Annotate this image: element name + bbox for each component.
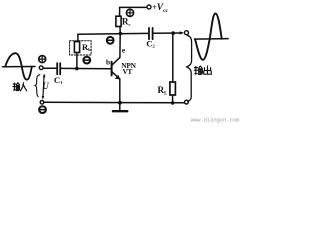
label 输入 (input) : hand-drawn glyph 入 [20, 83, 26, 91]
output brace } [187, 35, 192, 101]
collector line wire (RB corner to C2) [78, 32, 148, 35]
input waveform axis [3, 66, 35, 68]
wire: RL bottom to rail [172, 95, 174, 103]
output waveform sine (inverted, amplified) [195, 14, 222, 60]
polarity symbol ⊕ on top rail [126, 9, 133, 16]
input waveform sine [5, 53, 32, 80]
ground [119, 103, 121, 111]
capacitor C1 [57, 63, 60, 74]
resistor R1 body [116, 16, 121, 26]
junction: RL at rail [171, 101, 175, 105]
transistor VT base bar [111, 62, 113, 76]
wire: R1 bottom to collector node [119, 27, 121, 34]
output terminal (bottom) [185, 100, 189, 104]
svg-text:b: b [106, 57, 110, 66]
wire: output node down to RL [172, 33, 174, 82]
bottom rail wire [44, 101, 185, 104]
polarity symbol ⊕ at input top [39, 56, 46, 63]
Vcc terminal [147, 5, 151, 9]
junction: output node [171, 31, 175, 35]
junction: RB bottom to base line [75, 67, 79, 71]
label 输入 (input) : hand-drawn glyph 输 [13, 83, 20, 91]
polarity symbol ⊖ at base [83, 57, 90, 64]
svg-text:www.diangon.com: www.diangon.com [191, 117, 240, 123]
polarity symbol ⊖ at collector [107, 37, 114, 44]
svg-text:VT: VT [123, 67, 133, 76]
wire: collector up to node [119, 34, 121, 58]
output terminal (top) [185, 31, 189, 35]
svg-text:U: U [42, 81, 49, 91]
wire: input terminal to C1 [43, 67, 56, 69]
polarity symbol ⊖ below input [39, 106, 46, 113]
top rail wire [120, 6, 147, 8]
transistor emitter stroke with arrow [112, 72, 120, 79]
wire: C2 to output node [154, 32, 181, 34]
label 输出 (output) : hand-drawn glyph 输 [194, 66, 202, 74]
dashed box around RB [70, 41, 92, 55]
voltage U arrow (double-headed) [43, 75, 44, 98]
resistor RB body [74, 42, 79, 53]
output arrow head [180, 31, 184, 34]
capacitor C2 [149, 28, 153, 39]
input terminal (top) [39, 66, 43, 70]
wire: RB top to collector line [77, 34, 79, 41]
output waveform axis [195, 38, 229, 41]
wire: C1 to base [61, 67, 111, 69]
junction: emitter at rail [118, 101, 122, 105]
label 输出 (output) : hand-drawn glyph 出 [204, 66, 212, 74]
bottom-left terminal [40, 101, 44, 105]
wire: rail corner down to R1 [119, 7, 121, 16]
transistor collector stroke [112, 58, 120, 66]
wire: emitter down to rail [119, 79, 121, 103]
voltage brace { for U [35, 75, 40, 97]
wire: RB to base junction [76, 52, 78, 68]
junction: collector node [119, 32, 123, 36]
resistor RL body [170, 82, 176, 95]
